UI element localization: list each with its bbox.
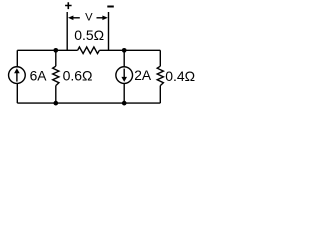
resistor 0.5Ω (horizontal zigzag) xyxy=(78,47,100,54)
junction node bottom-left xyxy=(53,101,58,106)
wire top-right segment xyxy=(99,49,160,51)
wire top-left segment xyxy=(17,49,77,51)
minus sign xyxy=(107,6,114,8)
wire right side lower xyxy=(159,86,161,104)
arrow left (toward + terminal) xyxy=(73,17,80,19)
svg-text:V: V xyxy=(85,12,93,24)
junction node top-left xyxy=(53,48,58,53)
wire 2A branch bottom xyxy=(123,83,125,103)
junction node top-right xyxy=(122,48,127,53)
junction node bottom-right xyxy=(122,101,127,106)
current source I1 6A (circle) xyxy=(9,67,26,84)
current source I1 arrow (up) xyxy=(16,73,18,82)
wire left side lower xyxy=(16,83,18,103)
wire left side upper xyxy=(16,50,18,67)
arrow right (toward - terminal) xyxy=(97,17,104,19)
current source I2 arrow (down) xyxy=(123,69,125,78)
wire 2A branch top xyxy=(123,50,125,67)
current source I2 2A (circle) xyxy=(116,67,133,84)
resistor 0.4Ω (vertical zigzag) xyxy=(157,66,163,85)
svg-text:0.6Ω: 0.6Ω xyxy=(63,67,93,83)
svg-text:6A: 6A xyxy=(30,68,48,83)
voltage marker line right xyxy=(108,12,110,50)
wire 0.6Ω branch bottom xyxy=(55,86,57,104)
svg-text:0.4Ω: 0.4Ω xyxy=(165,68,195,84)
plus sign xyxy=(65,2,72,9)
voltage marker line left xyxy=(66,12,68,50)
resistor 0.6Ω (vertical zigzag) xyxy=(53,66,59,85)
wire bottom xyxy=(17,102,160,104)
svg-text:0.5Ω: 0.5Ω xyxy=(74,27,104,43)
svg-text:2A: 2A xyxy=(134,68,152,83)
wire 0.6Ω branch top xyxy=(55,50,57,66)
wire right side upper xyxy=(159,50,161,66)
